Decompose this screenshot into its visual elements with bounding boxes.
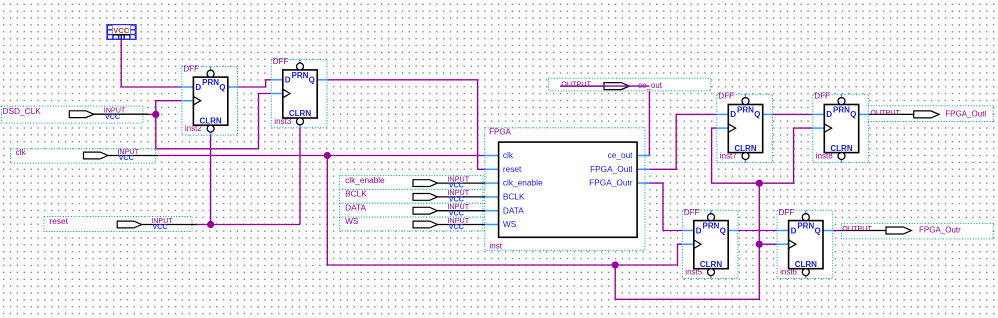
junction: DSD_CLK node [152, 111, 159, 118]
wire: junction up to inst2 clock [156, 101, 182, 115]
svg-text:OUTPUT: OUTPUT [870, 108, 900, 117]
svg-text:WS: WS [503, 219, 517, 229]
output pin FPGA_Outr [841, 223, 994, 239]
wire: clk branch to inst6 clock [759, 243, 777, 245]
svg-text:PRN: PRN [292, 71, 309, 80]
svg-text:Q: Q [814, 226, 820, 235]
svg-text:DFF: DFF [273, 57, 289, 66]
svg-text:ce_out: ce_out [608, 150, 634, 160]
junction: clk node lower-left [612, 261, 619, 268]
junction: reset at inst2 CLRN [207, 221, 214, 228]
wire: clk pin to FPGA clk [158, 155, 485, 157]
svg-text:OUTPUT: OUTPUT [561, 80, 591, 89]
D flip-flop inst8 [813, 92, 869, 163]
D flip-flop inst6 [777, 208, 833, 279]
svg-text:PRN: PRN [737, 106, 754, 115]
svg-text:reset: reset [50, 216, 69, 226]
svg-text:D: D [195, 83, 201, 92]
D flip-flop inst7 [717, 92, 773, 163]
wire: FPGA_Outl to inst7 D [637, 114, 717, 169]
svg-text:PRN: PRN [703, 222, 720, 231]
svg-text:inst: inst [490, 241, 503, 250]
svg-text:DFF: DFF [814, 92, 830, 101]
input pin DATA [340, 202, 485, 217]
svg-text:VCC: VCC [113, 26, 130, 35]
wire: inst5 Q to inst6 D [737, 230, 777, 232]
svg-text:FPGA_Outr: FPGA_Outr [589, 178, 633, 188]
wire: inst2 Q to inst3 D [237, 80, 271, 87]
D flip-flop inst5 [682, 208, 738, 279]
svg-text:D: D [285, 76, 291, 85]
wire: junction down and right to inst3 clock [156, 94, 271, 149]
wire: clk trunk down around to right DFFs [615, 183, 759, 299]
svg-text:CLRN: CLRN [700, 260, 722, 269]
svg-text:VCC: VCC [105, 112, 120, 121]
output pin ce_out [549, 78, 711, 91]
input pin clk [11, 147, 158, 163]
svg-text:DFF: DFF [779, 208, 795, 217]
svg-text:D: D [696, 226, 702, 235]
wire: VCC to inst2 D [121, 35, 182, 87]
svg-text:FPGA_Outl: FPGA_Outl [945, 109, 986, 118]
input pin clk_enable [340, 174, 485, 189]
junction: clk node at inst6 clock [756, 241, 763, 248]
svg-text:clk: clk [503, 150, 514, 160]
wire: inst6 Q to FPGA_Outr pin [832, 230, 841, 232]
svg-text:FPGA_Outl: FPGA_Outl [590, 164, 633, 174]
svg-text:BCLK: BCLK [345, 189, 367, 199]
svg-text:Q: Q [850, 110, 856, 119]
svg-text:CLRN: CLRN [734, 144, 756, 153]
wire: ce_out pin overlay line [560, 85, 649, 87]
svg-text:Q: Q [219, 83, 225, 92]
junction: clk node at clk line [324, 152, 331, 159]
svg-text:Q: Q [754, 110, 760, 119]
input pin WS [340, 216, 485, 231]
wire: FPGA_Outr to inst5 D [637, 183, 682, 230]
svg-text:WS: WS [345, 216, 359, 226]
svg-text:DFF: DFF [684, 208, 700, 217]
svg-text:D: D [730, 110, 736, 119]
svg-text:VCC: VCC [119, 153, 134, 162]
wire: inst2 CLRN down to reset line [210, 132, 212, 225]
svg-text:VCC: VCC [449, 222, 464, 231]
svg-text:CLRN: CLRN [795, 260, 817, 269]
wire: inst3 CLRN down to reset line [299, 125, 301, 225]
svg-text:BCLK: BCLK [503, 192, 525, 202]
svg-text:clk: clk [16, 147, 27, 157]
wire: clk branch to inst8 clock [759, 128, 813, 183]
svg-text:CLRN: CLRN [199, 116, 221, 125]
junction: clk node between inst7 and inst8 [756, 180, 763, 187]
FPGA block symbol inst [485, 128, 650, 251]
svg-text:CLRN: CLRN [289, 109, 311, 118]
svg-text:PRN: PRN [202, 78, 219, 87]
svg-text:DSD_CLK: DSD_CLK [3, 106, 42, 116]
svg-text:FPGA: FPGA [489, 128, 511, 137]
svg-text:reset: reset [503, 164, 522, 174]
wire: inst7 Q to inst8 D [772, 113, 814, 115]
wire: FPGA ce_out up to ce_out pin [560, 86, 649, 155]
svg-text:DATA: DATA [345, 202, 366, 212]
svg-text:Q: Q [309, 76, 315, 85]
svg-text:D: D [791, 226, 797, 235]
input pin BCLK [340, 188, 485, 203]
input pin reset [44, 216, 197, 232]
wire: clk branch to inst5 clock [615, 244, 682, 265]
input pin DSD_CLK [1, 106, 148, 124]
output pin FPGA_Outl [868, 106, 993, 122]
svg-text:PRN: PRN [797, 222, 814, 231]
svg-text:CLRN: CLRN [830, 144, 852, 153]
D flip-flop inst3 [271, 57, 327, 128]
svg-text:FPGA_Outr: FPGA_Outr [919, 226, 961, 235]
svg-text:OUTPUT: OUTPUT [842, 224, 872, 233]
svg-text:Q: Q [720, 226, 726, 235]
svg-text:PRN: PRN [833, 106, 850, 115]
wire: reset pin to DFF clears [197, 224, 300, 226]
svg-text:DATA: DATA [503, 205, 524, 215]
wire: inst8 Q to FPGA_Outl pin [868, 113, 870, 115]
wire: clk branch to inst7 clock [712, 128, 760, 183]
svg-text:VCC: VCC [152, 222, 167, 231]
svg-text:clk_enable: clk_enable [503, 178, 543, 188]
VCC power symbol [106, 24, 136, 40]
wire: inst3 Q to FPGA reset [327, 80, 485, 170]
wire: clk junction down to distribution [327, 156, 615, 266]
svg-text:clk_enable: clk_enable [345, 175, 385, 185]
svg-text:DFF: DFF [183, 64, 199, 73]
svg-text:DFF: DFF [718, 92, 734, 101]
D flip-flop inst2 [182, 64, 238, 135]
wire: DSD_CLK pin to junction [149, 113, 156, 115]
svg-text:D: D [826, 110, 832, 119]
